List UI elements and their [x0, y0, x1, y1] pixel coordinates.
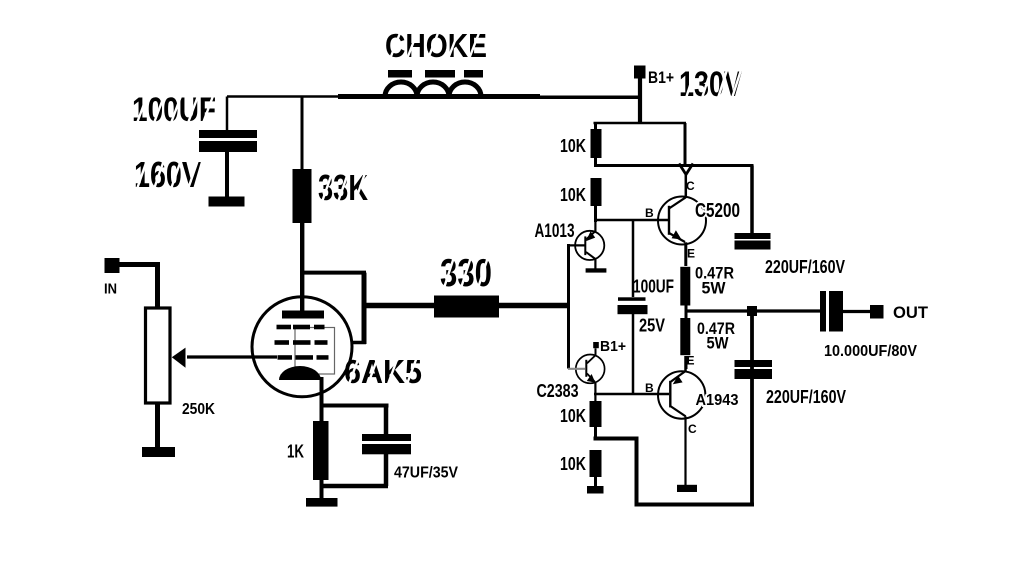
svg-text:5W: 5W: [702, 279, 727, 298]
wire feedback L path: [594, 311, 755, 507]
resistor 0.47R 5W upper: [680, 267, 690, 318]
svg-text:IN: IN: [104, 281, 117, 298]
wire B1+ rail: [594, 123, 687, 164]
capacitor 100UF/25V: [618, 221, 648, 394]
capacitor 10,000UF/80V: [820, 291, 871, 332]
node B1+ top: [634, 66, 646, 125]
resistor 33K: [293, 97, 312, 312]
wire base line C5200: [594, 219, 668, 222]
resistor 10K R2: [591, 178, 602, 222]
node output junction: [747, 306, 757, 316]
svg-text:C2383: C2383: [537, 381, 579, 401]
resistor 330: [434, 296, 499, 318]
svg-text:10K: 10K: [560, 136, 586, 156]
choke L1: [385, 70, 483, 97]
wire cathode: [320, 377, 389, 435]
svg-text:C: C: [688, 422, 697, 436]
wire base bus vertical: [567, 244, 570, 369]
capacitor 100UF/160V: [199, 97, 257, 207]
transistor C5200: [658, 174, 706, 266]
svg-text:A1013: A1013: [535, 221, 575, 242]
terminal IN: [105, 258, 161, 309]
wire collector rail to 220UF: [594, 164, 754, 175]
transistor A1013: [575, 219, 606, 273]
capacitor 220UF/160V lower: [735, 360, 773, 379]
wire 330 input line: [302, 273, 569, 344]
potentiometer 250K: [142, 308, 186, 457]
wire base line A1943: [594, 393, 669, 396]
node B1+ lower: [593, 342, 599, 348]
resistor 1K: [306, 421, 338, 507]
svg-text:C: C: [686, 179, 695, 193]
svg-text:100UF: 100UF: [132, 91, 216, 129]
transistor C2383: [576, 348, 605, 402]
svg-text:10K: 10K: [560, 454, 586, 474]
svg-text:CHOKE: CHOKE: [385, 27, 487, 64]
svg-text:10.000UF/80V: 10.000UF/80V: [824, 343, 917, 360]
svg-text:E: E: [687, 354, 695, 368]
wire A1013 base: [567, 244, 585, 246]
svg-text:B1+: B1+: [648, 68, 674, 87]
svg-text:220UF/160V: 220UF/160V: [765, 257, 845, 277]
svg-text:1K: 1K: [287, 442, 304, 462]
capacitor 47UF/35V: [322, 434, 411, 486]
tube 6AK5: [252, 297, 352, 397]
wire A1943 collector to ground: [677, 416, 697, 492]
svg-text:47UF/35V: 47UF/35V: [394, 465, 458, 482]
svg-text:A1943: A1943: [696, 392, 739, 409]
resistor 10K R3: [590, 401, 602, 440]
svg-text:6AK5: 6AK5: [344, 353, 422, 390]
wire top rail from 100UF cap to B1+: [227, 95, 642, 98]
svg-text:220UF/160V: 220UF/160V: [766, 387, 846, 407]
wire output line: [686, 309, 820, 312]
svg-text:100UF: 100UF: [633, 277, 674, 297]
wire grid line: [187, 355, 277, 358]
transistor A1943: [658, 356, 705, 419]
capacitor 220UF/160V upper: [735, 166, 771, 250]
wire C2383 base: [568, 368, 585, 370]
svg-text:250K: 250K: [182, 401, 215, 418]
svg-text:25V: 25V: [639, 316, 665, 336]
svg-text:160V: 160V: [134, 154, 201, 195]
svg-text:E: E: [687, 247, 695, 261]
terminal OUT: [870, 305, 884, 319]
resistor 10K R4: [587, 450, 604, 494]
svg-text:5W: 5W: [707, 334, 730, 353]
svg-text:10K: 10K: [560, 406, 586, 426]
stencil slits over big labels: [137, 33, 741, 384]
resistor 10K R1: [591, 129, 602, 167]
svg-text:B: B: [645, 206, 654, 220]
svg-text:C5200: C5200: [695, 200, 740, 222]
svg-text:OUT: OUT: [893, 303, 929, 322]
svg-text:B1+: B1+: [600, 338, 626, 355]
svg-text:10K: 10K: [560, 185, 586, 205]
resistor 0.47R 5W lower: [680, 318, 690, 369]
